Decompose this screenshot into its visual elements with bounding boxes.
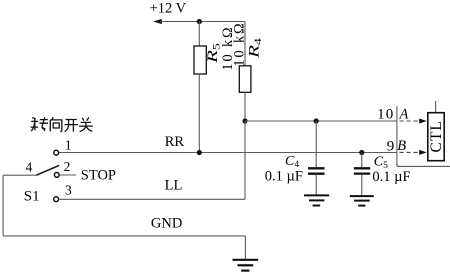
power +12V rail arrow: [153, 19, 162, 24]
wire C4 top: [315, 121, 317, 167]
svg-text:4: 4: [26, 159, 33, 174]
wire GND line: [3, 235, 245, 237]
开: [65, 120, 79, 132]
IC U1 CTL box: [428, 113, 444, 161]
wire R5 top: [198, 22, 200, 47]
switch S1 pin 2 contact: [54, 173, 59, 178]
capacitor C5: [354, 168, 370, 173]
switch S1 pin 3 contact: [54, 197, 59, 202]
wire A line: [245, 120, 397, 122]
wire C5 top: [361, 153, 363, 168]
wire pole (pin 4): [3, 174, 36, 176]
wire R5 bottom to RR line: [198, 74, 200, 153]
switch S1 arm: [36, 165, 59, 175]
wire R4 top: [244, 22, 246, 67]
node junction A/C4: [314, 118, 319, 123]
wire B line (RR): [59, 152, 397, 154]
node junction B/C5: [359, 150, 364, 155]
svg-text:B: B: [397, 138, 406, 154]
dashed wire B to CTL: [400, 151, 421, 153]
svg-text:S1: S1: [24, 188, 40, 204]
resistor R4: [239, 66, 251, 93]
转: [31, 118, 39, 132]
svg-text:1: 1: [65, 137, 72, 152]
svg-text:A: A: [399, 107, 409, 123]
svg-text:9: 9: [387, 138, 395, 154]
arrowhead A: [419, 119, 427, 124]
svg-text:LL: LL: [165, 177, 183, 193]
svg-text:CTL: CTL: [428, 120, 445, 152]
dashed wire A to CTL: [400, 120, 421, 122]
arrowhead B: [419, 150, 427, 155]
wire pin2 stub: [59, 174, 76, 176]
svg-text:2: 2: [64, 159, 71, 174]
ground symbol (C4): [304, 195, 329, 205]
ground symbol (main): [233, 260, 259, 271]
svg-text:GND: GND: [151, 216, 182, 232]
svg-text:0.1 µF: 0.1 µF: [265, 168, 303, 184]
wire CTL stub: [435, 101, 437, 113]
wire bottom-right edge: [397, 165, 450, 167]
label 转向开关 (turn switch), hand-drawn strokes: [31, 117, 93, 131]
switch S1 pin 1 contact: [54, 150, 59, 155]
wire C5 bottom: [361, 175, 363, 196]
wire GND drop: [244, 236, 246, 260]
svg-text:3: 3: [65, 183, 72, 198]
svg-text:+12 V: +12 V: [150, 0, 187, 16]
向: [50, 117, 62, 131]
pin divider line: [396, 106, 398, 166]
svg-text:0.1 µF: 0.1 µF: [372, 169, 410, 185]
关: [79, 117, 93, 131]
node junction RR/R5: [197, 150, 202, 155]
capacitor C4: [308, 168, 325, 173]
resistor R5: [194, 46, 206, 74]
wire LL riser: [244, 121, 246, 199]
wire GND left rail: [2, 175, 4, 236]
wire +12V rail: [161, 21, 246, 23]
wire R4 bottom to node A: [244, 92, 246, 121]
svg-text:10: 10: [377, 107, 394, 123]
wire C4 bottom: [315, 175, 317, 196]
svg-text:RR: RR: [165, 134, 185, 150]
node junction +12V/R5: [197, 19, 202, 24]
svg-text:R4: R4: [246, 38, 264, 59]
node junction R4/A-line/LL: [242, 118, 247, 123]
ground symbol (C5): [350, 196, 374, 206]
wire LL line from pin3: [59, 198, 245, 200]
svg-text:STOP: STOP: [81, 168, 116, 184]
